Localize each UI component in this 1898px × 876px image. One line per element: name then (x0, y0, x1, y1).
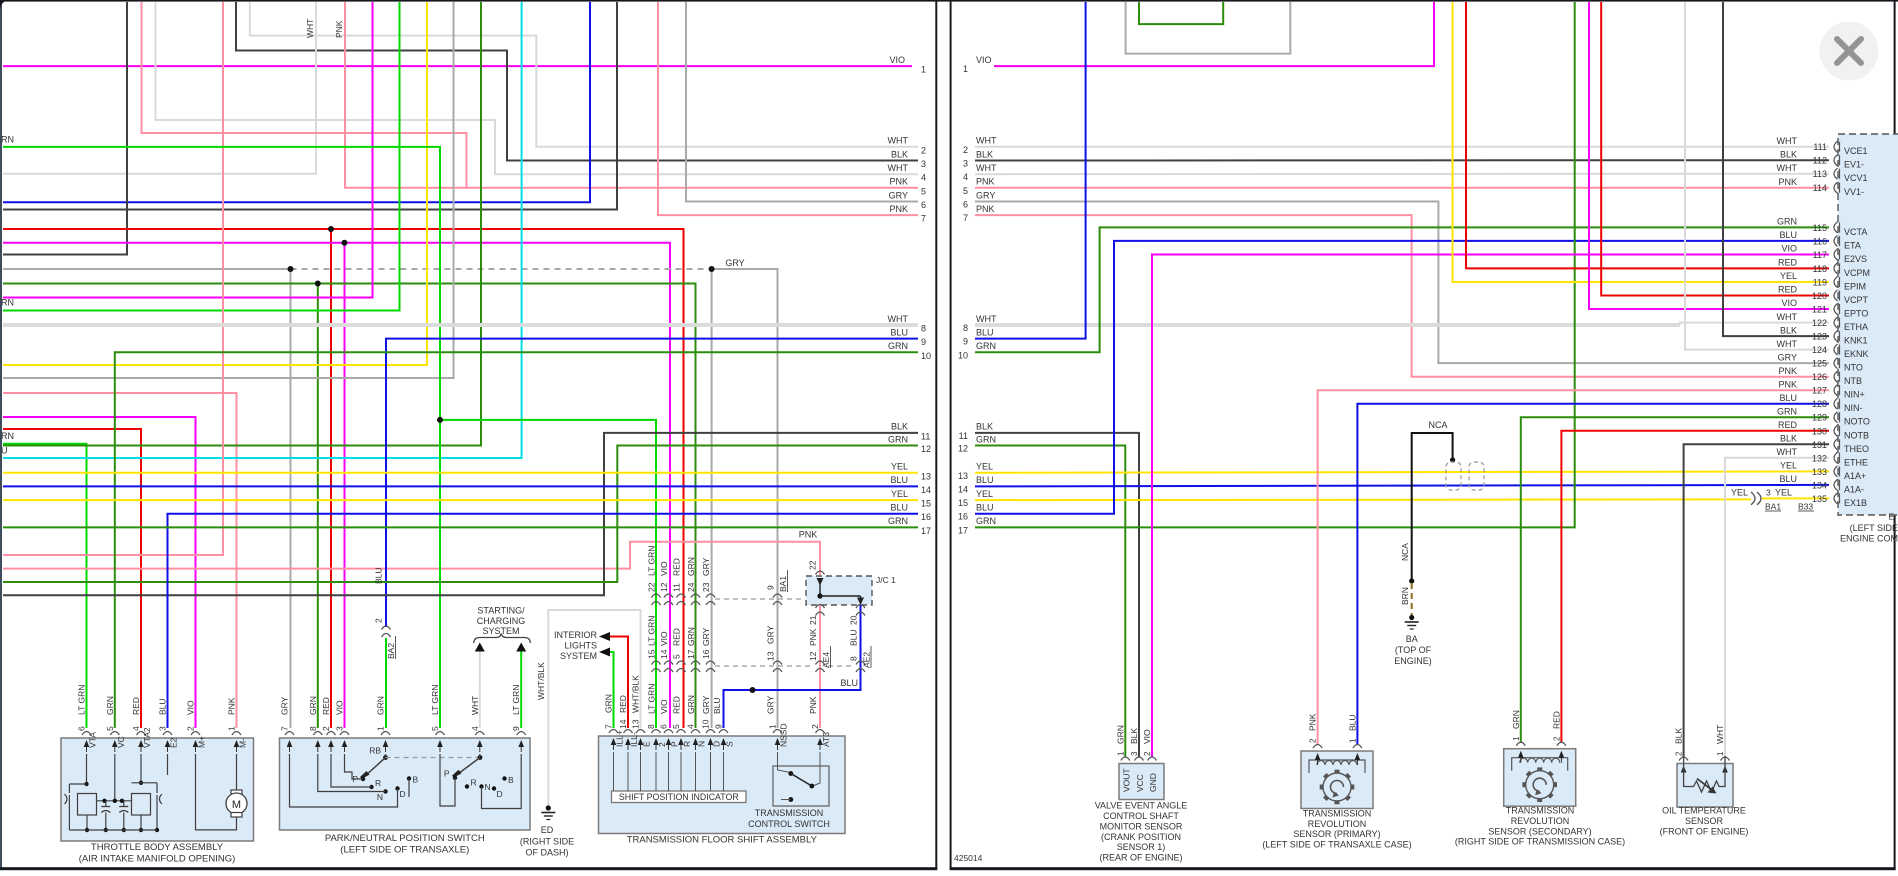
svg-text:126: 126 (1812, 372, 1827, 382)
wire RED pin 130 to secondary sensor pin 2 (1561, 431, 1829, 742)
wire BLK row 11 (3, 433, 918, 595)
svg-text:RN: RN (1, 298, 14, 308)
svg-text:10: 10 (958, 350, 968, 360)
wire GRY to shift pin NSSD (712, 269, 778, 728)
svg-text:BLU: BLU (890, 503, 908, 513)
wire PNK row 7 to pin 126 (975, 215, 1829, 377)
svg-text:GRY: GRY (701, 557, 711, 576)
switch blade 1 (365, 758, 386, 777)
svg-text:VIO: VIO (1781, 244, 1797, 254)
svg-text:2: 2 (810, 724, 820, 729)
wire PNK feeder to row 5 (142, 2, 467, 188)
svg-text:SENSOR: SENSOR (1685, 816, 1724, 826)
svg-text:M-: M- (238, 738, 248, 748)
svg-text:PNK: PNK (227, 697, 237, 715)
svg-text:RED: RED (672, 696, 682, 714)
svg-text:WHT: WHT (976, 136, 997, 146)
wire GRY row y378 to top (3, 2, 454, 378)
svg-text:ENGINE COM: ENGINE COM (1840, 534, 1898, 544)
wire GRN row 12 (3, 446, 918, 583)
svg-text:E2VS: E2VS (1844, 254, 1867, 264)
svg-text:7: 7 (921, 214, 926, 224)
svg-text:WHT: WHT (1777, 447, 1798, 457)
svg-text:WHT: WHT (976, 163, 997, 173)
svg-text:VCPT: VCPT (1844, 295, 1869, 305)
connector (not connected) dashed shells (1446, 462, 1461, 490)
svg-text:BLK: BLK (1780, 149, 1797, 159)
wire BLK row y254 to top (3, 2, 127, 255)
svg-text:128: 128 (1812, 399, 1827, 409)
svg-text:GRN: GRN (976, 434, 996, 444)
svg-text:YEL: YEL (891, 489, 908, 499)
svg-text:16: 16 (958, 512, 968, 522)
svg-text:R: R (471, 778, 477, 788)
svg-text:YEL: YEL (1780, 461, 1797, 471)
svg-text:RN: RN (1, 431, 14, 441)
wire GRY branch to shift pin D (711, 269, 713, 728)
svg-text:RED: RED (1778, 285, 1798, 295)
wire GRN row 10 to throttle pin VC (115, 352, 918, 728)
svg-text:WHT: WHT (305, 19, 315, 38)
svg-text:5: 5 (921, 186, 926, 196)
wire WHT row 2 (250, 2, 918, 147)
ground ED (right side of dash) (546, 805, 551, 810)
svg-text:2: 2 (1309, 738, 1318, 743)
svg-text:22: 22 (647, 582, 657, 592)
svg-text:14: 14 (958, 484, 968, 494)
svg-text:VIO: VIO (186, 700, 196, 715)
wire GRN row 17 (3, 526, 918, 528)
svg-text:VIO: VIO (1142, 729, 1152, 744)
svg-text:GRY: GRY (889, 190, 908, 200)
wire BLK pin 131 to oil temp sensor pin 2 (1684, 444, 1829, 757)
wire WHT row 4 to pin 113 (975, 173, 1829, 176)
svg-text:BLK: BLK (1674, 728, 1684, 744)
svg-text:M+: M+ (197, 736, 207, 748)
svg-text:EPIM: EPIM (1844, 282, 1866, 292)
wire BLK row 3 to pin 112 (975, 159, 1829, 161)
wire LT GRN branch to shift pin 2 (440, 420, 656, 728)
svg-text:WHT: WHT (1777, 163, 1798, 173)
svg-text:5: 5 (671, 724, 681, 729)
svg-text:LT GRN: LT GRN (647, 616, 657, 646)
svg-text:R: R (682, 741, 692, 747)
svg-text:P: P (670, 741, 680, 747)
svg-text:VTA: VTA (88, 732, 98, 748)
svg-text:7: 7 (963, 213, 968, 223)
connector ENGINE CONTROL MODULE (dashed, cut off at right) (1838, 134, 1898, 515)
wire GRN row 17 to top (975, 2, 1575, 527)
svg-text:13: 13 (766, 651, 776, 661)
svg-text:17: 17 (921, 526, 931, 536)
svg-text:9: 9 (714, 724, 724, 729)
svg-text:PNK: PNK (889, 204, 908, 214)
svg-text:14: 14 (921, 485, 931, 495)
component OIL TEMPERATURE SENSOR box (1677, 764, 1733, 808)
svg-text:GRN: GRN (1777, 217, 1797, 227)
svg-text:CONTROL SHAFT: CONTROL SHAFT (1103, 811, 1179, 821)
svg-text:M: M (232, 799, 241, 811)
svg-text:YEL: YEL (1731, 487, 1748, 497)
svg-text:13: 13 (958, 471, 968, 481)
svg-text:GRY: GRY (766, 625, 776, 644)
svg-text:VCE1: VCE1 (1844, 146, 1868, 156)
svg-text:2: 2 (921, 145, 926, 155)
wire J/C internal (819, 583, 821, 596)
svg-text:RED: RED (1778, 420, 1798, 430)
svg-text:GRN: GRN (308, 696, 318, 715)
svg-text:12: 12 (921, 444, 931, 454)
svg-text:LT GRN: LT GRN (430, 685, 440, 715)
svg-text:BLU: BLU (1347, 714, 1357, 731)
svg-text:GRN: GRN (1115, 725, 1125, 744)
svg-text:14: 14 (618, 719, 628, 729)
svg-text:BLU: BLU (1779, 393, 1797, 403)
svg-text:BLK: BLK (976, 422, 993, 432)
svg-text:(CRANK POSITION: (CRANK POSITION (1101, 832, 1181, 842)
svg-text:115: 115 (1813, 223, 1827, 233)
svg-text:VIO: VIO (889, 55, 905, 65)
wire GRN row y445 to top (3, 2, 481, 446)
svg-text:1: 1 (1348, 738, 1357, 743)
wire RED pin 118 to top (1466, 2, 1829, 268)
svg-text:2: 2 (657, 742, 667, 747)
inline connectors on shift assembly wires (lower row) (652, 661, 661, 665)
svg-text:6: 6 (659, 724, 669, 729)
svg-text:9: 9 (511, 726, 521, 731)
svg-text:11: 11 (959, 431, 968, 441)
wire WHT row 8 to pin 122 (1680, 323, 1829, 325)
svg-text:VTA2: VTA2 (142, 727, 152, 748)
wire BLU J/C pin 20 to shift pin S (724, 605, 861, 728)
svg-text:VIO: VIO (976, 55, 992, 65)
svg-text:ENGINE): ENGINE) (1394, 656, 1432, 666)
svg-text:TRANSMISSION: TRANSMISSION (755, 808, 824, 818)
svg-text:EX1B: EX1B (1844, 498, 1867, 508)
svg-text:WHT: WHT (888, 314, 909, 324)
svg-text:ETHA: ETHA (1844, 322, 1868, 332)
svg-text:GRN: GRN (1777, 406, 1797, 416)
svg-text:119: 119 (1813, 278, 1827, 288)
svg-text:CONTROL SWITCH: CONTROL SWITCH (748, 819, 830, 829)
svg-text:12: 12 (659, 582, 669, 592)
wire dashed connector line lower (715, 665, 812, 667)
svg-text:RED: RED (672, 628, 682, 646)
right panel bottom border (950, 867, 1896, 870)
svg-text:17: 17 (958, 525, 968, 535)
svg-text:BLU: BLU (849, 629, 859, 646)
wire BLU upper row to top (3, 2, 590, 202)
svg-text:12: 12 (958, 444, 968, 454)
svg-text:ETHE: ETHE (1844, 457, 1868, 467)
wire dashed connector line lower 2 (828, 665, 852, 667)
svg-text:GRN: GRN (376, 696, 386, 715)
left panel right border (935, 0, 937, 869)
svg-text:125: 125 (1812, 359, 1827, 369)
svg-text:118: 118 (1813, 264, 1827, 274)
wire LT GRN row y147 to P/N pin 5 (3, 147, 440, 728)
svg-text:LT GRN: LT GRN (647, 684, 657, 714)
svg-text:PNK: PNK (976, 177, 995, 187)
svg-text:BLU: BLU (890, 475, 908, 485)
svg-text:ED: ED (541, 825, 554, 835)
svg-text:(LEFT SIDE OF TRANSAXLE CASE): (LEFT SIDE OF TRANSAXLE CASE) (1262, 840, 1411, 850)
wire WHT pin 124 to top (1685, 2, 1829, 350)
svg-text:5: 5 (105, 726, 115, 731)
component THROTTLE BODY ASSEMBLY box (61, 738, 254, 841)
svg-text:NOTO: NOTO (1844, 417, 1870, 427)
svg-text:A1A-: A1A- (1844, 484, 1864, 494)
svg-text:116: 116 (1813, 236, 1827, 246)
svg-text:PNK: PNK (1778, 366, 1797, 376)
throttle body pins with numbers and wire colour labels (82, 732, 91, 736)
node LT GRN junction (437, 417, 443, 423)
svg-text:VIO: VIO (659, 561, 669, 576)
svg-text:INTERIOR: INTERIOR (554, 630, 598, 640)
svg-text:121: 121 (1812, 305, 1827, 315)
svg-text:NIN+: NIN+ (1844, 390, 1865, 400)
svg-text:RED: RED (672, 558, 682, 576)
svg-text:6: 6 (921, 200, 926, 210)
svg-text:BLU: BLU (976, 475, 994, 485)
wires from pins to shift position indicator (613, 752, 615, 791)
svg-text:PNK: PNK (1308, 713, 1318, 731)
inline connectors on NSSD gray wire (773, 594, 782, 598)
svg-text:ILL-: ILL- (629, 732, 639, 747)
svg-text:GRY: GRY (1778, 352, 1797, 362)
wire BLU row 9 to BA2 connector (386, 339, 918, 627)
svg-text:(LEFT SIDE OF TRANSAXLE): (LEFT SIDE OF TRANSAXLE) (340, 845, 469, 856)
svg-text:BLU: BLU (976, 327, 994, 337)
svg-text:VCTA: VCTA (1844, 227, 1867, 237)
wire YEL row 13 to pin 133 (975, 471, 1829, 472)
svg-text:17: 17 (686, 649, 696, 659)
wire RED to throttle pin VTA2 (3, 429, 141, 728)
svg-text:A1A+: A1A+ (1844, 471, 1866, 481)
svg-text:LT GRN: LT GRN (647, 546, 657, 576)
svg-text:8: 8 (849, 656, 859, 661)
wire PNK to J/C 1 pin 22 (3, 542, 820, 575)
svg-text:9: 9 (963, 337, 968, 347)
svg-text:1: 1 (1116, 751, 1125, 756)
wire RED to shift pin ILL- (610, 637, 628, 729)
wire WHT row 2 to pin 111 (975, 146, 1829, 148)
svg-text:(REAR OF ENGINE): (REAR OF ENGINE) (1099, 853, 1182, 863)
svg-text:4: 4 (963, 172, 968, 182)
svg-text:YEL: YEL (1780, 271, 1797, 281)
svg-text:RED: RED (131, 697, 141, 715)
svg-text:PNK: PNK (976, 204, 995, 214)
svg-text:GRY: GRY (701, 627, 711, 646)
svg-text:N: N (377, 792, 383, 802)
svg-text:9: 9 (921, 337, 926, 347)
wire VIO branch to P/N pin 3 (344, 243, 346, 728)
svg-text:3: 3 (963, 159, 968, 169)
svg-text:RN: RN (1, 134, 14, 144)
svg-text:GRN: GRN (976, 516, 996, 526)
svg-text:TRANSMISSION: TRANSMISSION (1303, 808, 1372, 818)
right panel left border (950, 0, 952, 869)
svg-text:2: 2 (1675, 751, 1684, 756)
svg-text:E: E (642, 741, 652, 747)
svg-text:AT3: AT3 (821, 732, 831, 747)
svg-text:133: 133 (1812, 467, 1827, 477)
wire RED row y229 to shift pin R (3, 229, 684, 728)
wire WHT row 8 (thick) (3, 323, 918, 327)
wire LT GRN to P/N pin 9 (520, 652, 522, 729)
wire BLK pin 123 to top (1723, 2, 1829, 336)
svg-text:21: 21 (808, 615, 818, 625)
svg-text:7: 7 (280, 726, 290, 731)
dashed link between switch halves (386, 757, 479, 759)
junction connector J/C 1 (806, 576, 872, 605)
svg-text:2: 2 (374, 618, 384, 623)
svg-text:PNK: PNK (808, 696, 818, 714)
svg-text:(TOP OF: (TOP OF (1395, 645, 1432, 655)
svg-text:GRY: GRY (976, 190, 995, 200)
svg-text:BLU: BLU (840, 678, 858, 688)
component TRANSMISSION CONTROL SWITCH sub-box (773, 766, 829, 806)
svg-text:SENSOR 1): SENSOR 1) (1117, 842, 1166, 852)
svg-text:(FRONT OF ENGINE): (FRONT OF ENGINE) (1660, 826, 1749, 836)
svg-text:E2: E2 (169, 737, 179, 748)
node VIO junction (342, 240, 348, 246)
wire LT GRN to throttle pin VTA (3, 444, 87, 728)
svg-text:GRY: GRY (766, 695, 776, 714)
svg-text:1: 1 (1512, 736, 1521, 741)
svg-text:132: 132 (1812, 453, 1827, 463)
svg-text:22: 22 (808, 560, 818, 570)
wire VIO pin 121 to top (1589, 2, 1829, 309)
svg-text:OF DASH): OF DASH) (525, 848, 568, 858)
wire GRY branch to P/N pin 7 (290, 269, 292, 728)
svg-text:THEO: THEO (1844, 444, 1869, 454)
svg-text:113: 113 (1813, 169, 1827, 179)
svg-text:12: 12 (808, 651, 818, 661)
svg-text:GRN: GRN (888, 434, 908, 444)
svg-text:YEL: YEL (976, 462, 993, 472)
svg-text:VIO: VIO (1781, 298, 1797, 308)
svg-text:4: 4 (686, 724, 696, 729)
wire VIO row y297 to top (3, 2, 373, 298)
svg-text:TRANSMISSION FLOOR SHIFT ASSEM: TRANSMISSION FLOOR SHIFT ASSEMBLY (627, 835, 818, 846)
svg-text:THROTTLE BODY ASSEMBLY: THROTTLE BODY ASSEMBLY (91, 842, 224, 853)
svg-text:8: 8 (308, 726, 318, 731)
svg-text:YEL: YEL (1775, 487, 1792, 497)
svg-text:P: P (444, 769, 450, 779)
node RED junction (328, 226, 334, 232)
svg-text:PNK: PNK (1778, 379, 1797, 389)
svg-text:WHT: WHT (1777, 339, 1798, 349)
svg-text:11: 11 (672, 583, 682, 592)
svg-text:5: 5 (963, 186, 968, 196)
svg-text:SHIFT POSITION INDICATOR: SHIFT POSITION INDICATOR (619, 792, 739, 802)
svg-text:114: 114 (1813, 183, 1827, 193)
svg-text:GRY: GRY (701, 695, 711, 714)
svg-text:23: 23 (701, 582, 711, 592)
svg-text:VCC: VCC (1135, 774, 1145, 792)
component PARK/NEUTRAL POSITION SWITCH box (280, 738, 531, 830)
svg-text:BLU: BLU (976, 503, 994, 513)
svg-text:134: 134 (1812, 480, 1827, 490)
wire PNK row 7 (658, 2, 918, 215)
wire RED pin 120 to top (1601, 2, 1829, 296)
svg-text:135: 135 (1812, 494, 1827, 504)
shift assembly pins with numbers and names (609, 730, 618, 734)
wire WHT row 4 (156, 2, 919, 174)
node J/C junction (817, 593, 822, 598)
wire PNK row y555 to top (3, 2, 223, 555)
svg-text:RED: RED (321, 697, 331, 715)
svg-text:VIO: VIO (659, 699, 669, 714)
svg-text:1: 1 (921, 65, 926, 75)
wire VIO to throttle pin M+ (3, 417, 196, 728)
svg-text:111: 111 (1813, 142, 1827, 152)
svg-text:3: 3 (335, 726, 345, 731)
svg-text:RED: RED (1551, 711, 1561, 729)
svg-text:N: N (697, 741, 707, 747)
svg-text:129: 129 (1812, 413, 1827, 423)
wire BLU row 16 to pin 116 (975, 241, 1829, 514)
wire PNK row 5 to pin 114 (975, 187, 1829, 189)
wire WHT/BLK to ED ground (548, 610, 640, 806)
svg-text:GRY: GRY (725, 258, 744, 268)
svg-text:BRN: BRN (1400, 587, 1410, 605)
svg-text:GRN: GRN (976, 341, 996, 351)
wire BRN dashed to ground (1411, 583, 1413, 615)
wire RED branch to P/N pin 2 (330, 229, 332, 728)
node GRY junction 2 (709, 266, 715, 272)
svg-text:GRN: GRN (105, 696, 115, 715)
svg-text:117: 117 (1813, 250, 1827, 260)
wire GRN to shift pin ILL+ (610, 652, 614, 728)
svg-text:(RIGHT SIDE OF TRANSMISSION CA: (RIGHT SIDE OF TRANSMISSION CASE) (1455, 837, 1625, 847)
svg-text:2: 2 (963, 145, 968, 155)
svg-text:BLK: BLK (1780, 434, 1797, 444)
svg-text:WHT: WHT (976, 314, 997, 324)
svg-text:U: U (1, 445, 8, 455)
component VALVE EVENT ANGLE CONTROL SHAFT MONITOR SENSOR box (1119, 764, 1164, 800)
wire LT BLU row y458 to top (3, 2, 522, 458)
wire YEL row 13 (3, 472, 918, 474)
connector outline at top of right panel (cut off) (1126, 2, 1291, 54)
svg-text:GND: GND (1148, 773, 1158, 792)
svg-text:E: E (1888, 512, 1894, 522)
svg-text:ETA: ETA (1844, 240, 1861, 250)
wire dashed connector line upper (715, 598, 802, 600)
component TRANSMISSION FLOOR SHIFT ASSEMBLY box (599, 736, 846, 834)
throttle position sensor internals (86, 754, 88, 784)
svg-text:WHT: WHT (888, 136, 909, 146)
wire BLK row y209 to top (3, 2, 617, 210)
svg-text:PARK/NEUTRAL POSITION SWITCH: PARK/NEUTRAL POSITION SWITCH (325, 833, 485, 844)
component TRANSMISSION REVOLUTION SENSOR (SECONDARY) (1504, 749, 1576, 807)
close button (X) top right (1820, 22, 1879, 81)
svg-text:10: 10 (701, 719, 711, 729)
svg-text:4: 4 (921, 173, 926, 183)
svg-text:BLK: BLK (891, 149, 908, 159)
svg-text:4: 4 (131, 726, 141, 731)
svg-text:EPTO: EPTO (1844, 309, 1868, 319)
svg-text:VALVE EVENT ANGLE: VALVE EVENT ANGLE (1095, 801, 1188, 811)
wire J/C internal horizontal (820, 595, 861, 597)
svg-text:GRN: GRN (604, 694, 614, 713)
svg-text:120: 120 (1812, 291, 1827, 301)
wire VIO pin 117 to sensor GND (1152, 255, 1829, 758)
svg-text:EKNK: EKNK (1844, 349, 1869, 359)
svg-text:YEL: YEL (976, 489, 993, 499)
svg-text:SENSOR (SECONDARY): SENSOR (SECONDARY) (1488, 826, 1591, 836)
